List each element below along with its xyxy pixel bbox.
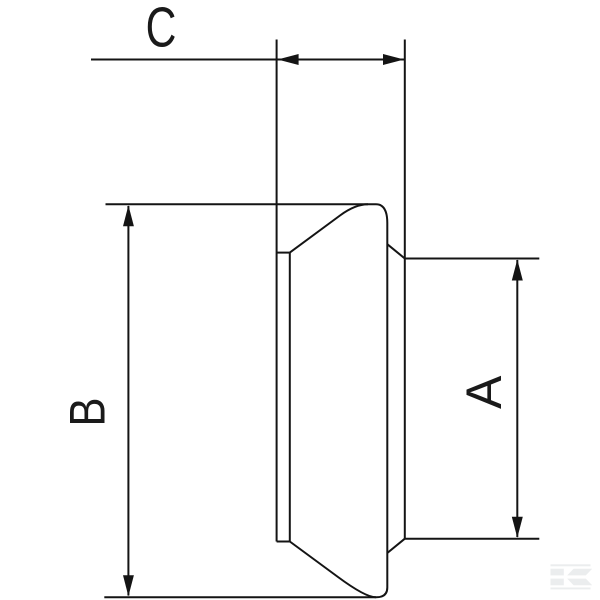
- cone top silhouette curve: [290, 204, 368, 252]
- watermark K logo: [551, 564, 593, 589]
- watermark bottom bar: [551, 588, 591, 590]
- B dimension arrowhead bottom: [123, 575, 134, 596]
- extension line left (C) merged with part left face: [276, 40, 278, 542]
- flange top edge: [277, 252, 290, 254]
- watermark top bar: [551, 564, 591, 566]
- C dimension arrowhead right: [383, 54, 404, 65]
- extension line right (C) merged with part end face: [404, 40, 406, 539]
- flange bottom edge: [277, 541, 290, 543]
- A dimension arrowhead bottom: [512, 517, 523, 538]
- svg-text:A: A: [456, 375, 512, 409]
- watermark stem lower block: [551, 579, 564, 586]
- B dimension arrowhead top: [123, 205, 134, 226]
- B dimension line: [127, 206, 129, 596]
- flange inner edge: [289, 253, 291, 542]
- part top silhouette with B top extension line, right face and bottom corner: [104, 204, 387, 597]
- watermark stem upper block: [551, 569, 564, 576]
- svg-text:B: B: [59, 397, 115, 426]
- C dimension line: [91, 59, 404, 61]
- A dimension line: [516, 260, 518, 537]
- bottom chamfer edge: [387, 539, 405, 553]
- svg-text:C: C: [146, 0, 177, 59]
- A bottom extension line: [405, 538, 540, 540]
- A top extension line: [405, 258, 540, 260]
- top chamfer edge: [387, 244, 405, 258]
- cone bottom silhouette curve: [290, 542, 376, 598]
- watermark lower arm: [567, 579, 592, 586]
- A dimension arrowhead top: [512, 260, 523, 281]
- watermark upper arm: [567, 569, 592, 576]
- C dimension arrowhead left: [278, 54, 299, 65]
